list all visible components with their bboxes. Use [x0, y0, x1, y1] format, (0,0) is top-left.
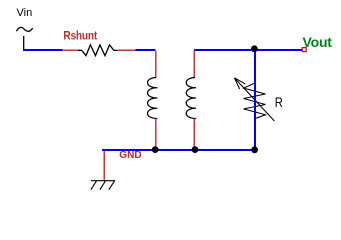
lead Rshunt left (red) — [63, 49, 79, 51]
resistor Rshunt — [78, 45, 118, 56]
wire Vin vertical (black) — [23, 36, 25, 50]
lead L1 bottom (red) — [155, 119, 157, 149]
junction dot bottom right — [251, 146, 258, 153]
junction dot top node Vout — [251, 45, 258, 52]
junction dot bottom middle — [192, 146, 199, 153]
svg-text:R: R — [275, 95, 283, 110]
wire to L1 top (blue) — [136, 49, 156, 51]
inductor L1 — [148, 78, 158, 119]
svg-text:GND: GND — [119, 150, 142, 161]
wire top-right (blue) — [194, 49, 302, 51]
junction dot bottom left — [152, 146, 159, 153]
svg-text:Vout: Vout — [303, 34, 333, 50]
svg-text:Vin: Vin — [17, 7, 33, 19]
arrow of variable resistor R — [234, 78, 274, 121]
wire bottom GND (blue) — [102, 149, 255, 151]
svg-text:Rshunt: Rshunt — [63, 30, 97, 43]
ground symbol — [91, 181, 115, 190]
lead ground (red) — [103, 151, 105, 181]
inductor L2 — [186, 78, 196, 119]
resistor R (variable, zigzag) — [244, 83, 266, 119]
lead L1 top (red) — [155, 51, 157, 78]
AC source V1 (sine squiggle) — [17, 27, 33, 31]
lead Rshunt right (red) — [118, 49, 136, 51]
lead L2 top (red) — [193, 51, 195, 78]
wire top-left (blue) — [23, 49, 63, 51]
wire vertical right (blue) — [254, 49, 256, 150]
lead L2 bottom (red) — [193, 119, 195, 149]
port Vout (red square) — [302, 48, 306, 52]
